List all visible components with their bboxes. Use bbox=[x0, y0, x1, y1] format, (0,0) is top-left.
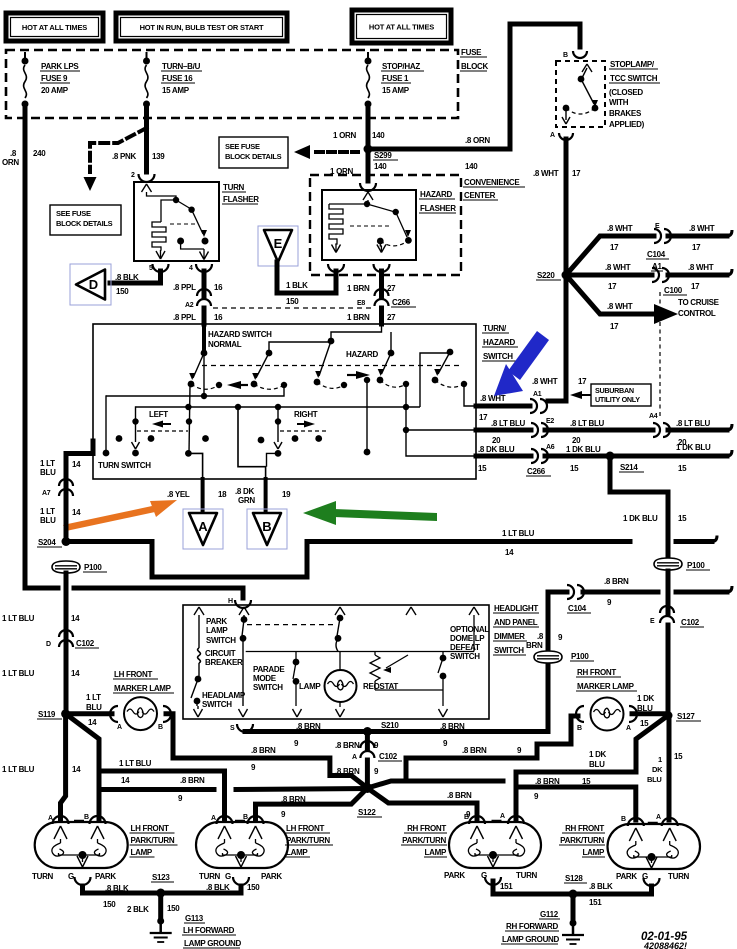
svg-text:BRAKES: BRAKES bbox=[609, 109, 642, 118]
svg-text:A6: A6 bbox=[546, 444, 555, 451]
svg-text:FUSE: FUSE bbox=[461, 48, 482, 57]
svg-text:151: 151 bbox=[500, 882, 513, 891]
svg-text:.8 LT BLU: .8 LT BLU bbox=[491, 419, 526, 428]
headlamp box entry arrows bbox=[194, 607, 199, 615]
wire .8 LT BLU 20 (switch to E2) bbox=[476, 428, 531, 433]
wire .8 WHT to C100-A1 (branch 2) bbox=[566, 273, 652, 278]
wire .8 BLK (lamp1 G to S123) bbox=[83, 886, 161, 893]
dashed arc 3 bbox=[317, 382, 344, 388]
fuse F16 TURN-B/U 15A bbox=[146, 52, 148, 61]
svg-text:1 DK BLU: 1 DK BLU bbox=[566, 445, 601, 454]
wire RH marker A to S127 bbox=[632, 711, 668, 716]
svg-text:CENTER: CENTER bbox=[464, 191, 496, 200]
svg-text:LAMP GROUND: LAMP GROUND bbox=[502, 935, 560, 944]
svg-text:1 LT: 1 LT bbox=[86, 693, 101, 702]
switch wire node-284 drop and crossbar bbox=[106, 385, 284, 396]
svg-text:LH FRONT: LH FRONT bbox=[114, 670, 152, 679]
svg-text:ORN: ORN bbox=[2, 158, 19, 167]
svg-text:AND PANEL: AND PANEL bbox=[494, 618, 538, 627]
svg-text:1 LT BLU: 1 LT BLU bbox=[2, 669, 35, 678]
grommet P100 (center riser) bbox=[534, 651, 562, 663]
wire 1 LT BLU 14 (A7 segment) bbox=[64, 487, 69, 541]
svg-text:150: 150 bbox=[116, 287, 129, 296]
svg-text:S122: S122 bbox=[358, 808, 376, 817]
svg-text:S220: S220 bbox=[537, 271, 555, 280]
svg-text:A2: A2 bbox=[185, 302, 194, 309]
svg-text:.8 WHT: .8 WHT bbox=[532, 377, 558, 386]
svg-text:15: 15 bbox=[640, 719, 649, 728]
svg-text:150: 150 bbox=[167, 904, 180, 913]
svg-text:15: 15 bbox=[478, 464, 487, 473]
svg-text:OPTIONAL: OPTIONAL bbox=[450, 625, 489, 634]
svg-text:.8 BRN: .8 BRN bbox=[180, 776, 205, 785]
svg-text:SWITCH: SWITCH bbox=[253, 683, 283, 692]
splice S128 bbox=[569, 890, 578, 899]
switch wire BRN entry rail bbox=[331, 324, 382, 341]
svg-text:14: 14 bbox=[88, 718, 97, 727]
svg-text:15 AMP: 15 AMP bbox=[162, 86, 190, 95]
wire .8 BLK (lamp4 G to S128) bbox=[573, 886, 652, 894]
svg-text:PARK/TURN: PARK/TURN bbox=[560, 836, 604, 845]
wire .8 PPL 16 (pin4 to A2) bbox=[202, 271, 207, 297]
svg-text:CIRCUIT: CIRCUIT bbox=[205, 649, 236, 658]
wire 1 BRN 27 (E8 to switch) bbox=[379, 308, 384, 324]
svg-text:C266: C266 bbox=[392, 298, 411, 307]
wire marker-B to BRN bus bbox=[166, 714, 367, 788]
svg-text:PARK: PARK bbox=[444, 871, 465, 880]
splice S119 bbox=[61, 709, 70, 718]
svg-text:B: B bbox=[563, 52, 568, 59]
switch right track bbox=[277, 407, 279, 421]
svg-text:STOP/HAZ: STOP/HAZ bbox=[382, 62, 420, 71]
hazard flasher box bbox=[322, 190, 416, 260]
svg-text:B: B bbox=[577, 725, 582, 732]
svg-text:A: A bbox=[48, 815, 53, 822]
RH marker lamp bbox=[591, 698, 624, 731]
switch wire node-406 drops bbox=[406, 384, 476, 456]
dashed line C266 between A2 and E8 bbox=[213, 307, 372, 309]
wire .8 LT BLU after A4 bbox=[668, 428, 727, 433]
wire .8 PPL 16 (A2 to switch) bbox=[202, 308, 207, 324]
svg-text:.8 BRN: .8 BRN bbox=[447, 791, 472, 800]
svg-text:PARK LPS: PARK LPS bbox=[41, 62, 79, 71]
power feed box HOT AT ALL TIMES (left) bbox=[6, 13, 103, 41]
wire .8 WHT after C104 bbox=[668, 234, 727, 239]
switch exit jog to LT BLU down-left bbox=[66, 441, 93, 487]
switch wire PPL entry to pivot1 bbox=[202, 324, 206, 353]
svg-text:A: A bbox=[500, 813, 505, 820]
svg-text:BLU: BLU bbox=[40, 516, 56, 525]
svg-text:.8 YEL: .8 YEL bbox=[167, 490, 190, 499]
symbol D to-sheet triangle bbox=[70, 264, 111, 305]
svg-text:G: G bbox=[642, 872, 648, 881]
svg-text:B: B bbox=[262, 519, 271, 534]
svg-text:SWITCH: SWITCH bbox=[450, 652, 480, 661]
svg-text:REOSTAT: REOSTAT bbox=[363, 682, 398, 691]
svg-text:TURN/: TURN/ bbox=[483, 324, 507, 333]
svg-text:1 LT BLU: 1 LT BLU bbox=[502, 529, 535, 538]
svg-text:C102: C102 bbox=[379, 752, 398, 761]
svg-text:LEFT: LEFT bbox=[149, 410, 168, 419]
svg-text:SWITCH: SWITCH bbox=[483, 352, 513, 361]
svg-text:150: 150 bbox=[103, 900, 116, 909]
svg-text:BLU: BLU bbox=[647, 775, 662, 784]
dashed connector boundary C100/A4 bbox=[659, 292, 661, 417]
svg-text:G: G bbox=[225, 872, 231, 881]
wire .8 BRN (S210 to C102-A) bbox=[365, 732, 370, 750]
svg-text:19: 19 bbox=[282, 490, 291, 499]
svg-text:15 AMP: 15 AMP bbox=[382, 86, 410, 95]
svg-text:17: 17 bbox=[692, 243, 701, 252]
fuse F1 STOP/HAZ 15A bbox=[367, 52, 369, 61]
wire stub .8 BRN right end bbox=[676, 590, 727, 595]
wire .8 BLK (lamp3 G to S128) bbox=[493, 881, 573, 894]
svg-text:.8 WHT: .8 WHT bbox=[605, 263, 631, 272]
svg-text:C104: C104 bbox=[647, 250, 666, 259]
switch contact dots row bbox=[116, 435, 123, 442]
svg-text:1 LT BLU: 1 LT BLU bbox=[2, 614, 35, 623]
dashed arc 4 bbox=[380, 380, 406, 387]
svg-text:P100: P100 bbox=[571, 652, 589, 661]
svg-text:.8 BRN: .8 BRN bbox=[535, 777, 560, 786]
RH marker cups bbox=[576, 706, 584, 722]
switch left track bbox=[135, 407, 137, 421]
svg-text:MARKER LAMP: MARKER LAMP bbox=[114, 684, 172, 693]
svg-text:14: 14 bbox=[121, 776, 130, 785]
svg-text:.8 BRN: .8 BRN bbox=[462, 746, 487, 755]
wire 1 DK BLU (S214 down to right col) bbox=[610, 456, 668, 555]
svg-text:1 DK BLU: 1 DK BLU bbox=[623, 514, 658, 523]
svg-text:14: 14 bbox=[72, 508, 81, 517]
connector cup pin 4 bbox=[196, 264, 212, 272]
svg-text:.8 BRN: .8 BRN bbox=[251, 746, 276, 755]
svg-text:.8 BLK: .8 BLK bbox=[105, 884, 129, 893]
wire .8 BRN (C102-A to S122) bbox=[365, 760, 370, 788]
svg-text:FUSE 16: FUSE 16 bbox=[162, 74, 193, 83]
headlamp switch box bbox=[183, 605, 489, 719]
connector cup hazard flasher pin BRN bbox=[374, 264, 390, 272]
reostat bbox=[374, 652, 376, 656]
suburban/utility callout bbox=[591, 384, 651, 406]
svg-text:A: A bbox=[198, 519, 208, 534]
turn flasher interior bbox=[142, 184, 147, 192]
svg-text:TURN: TURN bbox=[668, 872, 690, 881]
svg-text:BLU: BLU bbox=[86, 703, 102, 712]
svg-text:TO CRUISE: TO CRUISE bbox=[678, 298, 720, 307]
svg-text:HAZARD: HAZARD bbox=[420, 190, 452, 199]
wire 1 LT BLU (S204 down to S119) bbox=[64, 573, 69, 712]
svg-text:LAMP: LAMP bbox=[299, 682, 321, 691]
switch wire node-464 to WHT out bbox=[464, 384, 476, 406]
svg-text:NORMAL: NORMAL bbox=[208, 340, 242, 349]
svg-text:D: D bbox=[89, 277, 98, 292]
circuit breaker branch bbox=[198, 615, 200, 648]
switch wire node-367 bbox=[364, 377, 370, 383]
power feed box HOT IN RUN BULB TEST OR START bbox=[116, 13, 287, 41]
fuse F9 PARK LPS 20A bbox=[24, 52, 26, 61]
svg-text:.8 BLK: .8 BLK bbox=[589, 882, 613, 891]
switch rail y407 bbox=[136, 406, 421, 408]
svg-text:14: 14 bbox=[72, 460, 81, 469]
svg-text:BRN: BRN bbox=[526, 641, 543, 650]
svg-text:D: D bbox=[46, 641, 51, 648]
wire lamp1-B drop bbox=[97, 771, 102, 820]
switch node wire to B out bbox=[238, 407, 266, 479]
svg-text:.8 DK BLU: .8 DK BLU bbox=[478, 445, 515, 454]
LH front park/turn lamp 2 bbox=[196, 822, 288, 868]
symbol E to-sheet triangle bbox=[258, 226, 298, 266]
splice S123 bbox=[156, 889, 165, 898]
svg-text:FUSE 9: FUSE 9 bbox=[41, 74, 68, 83]
svg-text:FUSE 1: FUSE 1 bbox=[382, 74, 409, 83]
svg-text:1 LT: 1 LT bbox=[40, 459, 55, 468]
svg-text:A: A bbox=[626, 725, 631, 732]
wire .8 BRN bus y789 (lamp1B to S122) bbox=[99, 787, 214, 792]
switch node wire to A out bbox=[185, 450, 192, 457]
orange annotation arrow bbox=[63, 500, 177, 531]
svg-text:2: 2 bbox=[131, 172, 135, 179]
svg-text:.8 BLK: .8 BLK bbox=[206, 883, 230, 892]
svg-text:E: E bbox=[650, 618, 655, 625]
svg-text:1 BLK: 1 BLK bbox=[286, 281, 308, 290]
svg-text:1 DK: 1 DK bbox=[637, 694, 655, 703]
wire 1 DK BLU (S127 to lamp4 A) bbox=[667, 716, 672, 821]
wire S127 diag to lamp3A bbox=[636, 716, 668, 773]
svg-text:15: 15 bbox=[678, 464, 687, 473]
svg-text:.8 PPL: .8 PPL bbox=[173, 283, 196, 292]
dashed wire to see-fuse-details (right) bbox=[316, 150, 358, 154]
svg-text:1 LT BLU: 1 LT BLU bbox=[119, 759, 152, 768]
svg-text:.8 PPL: .8 PPL bbox=[173, 313, 196, 322]
svg-text:LAMP GROUND: LAMP GROUND bbox=[184, 939, 242, 948]
svg-text:20: 20 bbox=[492, 436, 501, 445]
svg-text:LH FRONT: LH FRONT bbox=[286, 824, 324, 833]
svg-text:.8 BRN: .8 BRN bbox=[296, 722, 321, 731]
svg-text:27: 27 bbox=[387, 313, 396, 322]
dashed arc 2 bbox=[254, 384, 284, 389]
svg-text:MODE: MODE bbox=[253, 674, 277, 683]
svg-text:S204: S204 bbox=[38, 538, 56, 547]
wire .8 BLK (lamp2 G to S123) bbox=[161, 886, 241, 893]
switch wire pivot1 drop bbox=[203, 353, 205, 396]
svg-text:C266: C266 bbox=[527, 467, 546, 476]
svg-text:APPLIED): APPLIED) bbox=[609, 120, 645, 129]
svg-text:17: 17 bbox=[578, 377, 587, 386]
stoplamp switch contacts bbox=[582, 64, 587, 72]
svg-text:CONVENIENCE: CONVENIENCE bbox=[464, 178, 520, 187]
svg-text:S299: S299 bbox=[374, 151, 392, 160]
svg-text:.8 WHT: .8 WHT bbox=[607, 224, 633, 233]
wire .8 DK BLU 15 (switch to A6) bbox=[476, 454, 531, 459]
svg-text:140: 140 bbox=[465, 162, 478, 171]
svg-text:17: 17 bbox=[479, 413, 488, 422]
svg-text:1 LT: 1 LT bbox=[40, 507, 55, 516]
svg-text:PARK/TURN: PARK/TURN bbox=[286, 836, 330, 845]
svg-text:.8: .8 bbox=[537, 632, 544, 641]
wire .8 WHT 17 (switch to A1) bbox=[476, 404, 530, 409]
svg-text:LH FORWARD: LH FORWARD bbox=[183, 926, 235, 935]
LH front park/turn lamp 1 bbox=[35, 822, 128, 868]
svg-text:240: 240 bbox=[33, 149, 46, 158]
svg-text:H: H bbox=[228, 598, 233, 605]
svg-text:LAMP: LAMP bbox=[286, 848, 308, 857]
svg-text:TCC SWITCH: TCC SWITCH bbox=[610, 74, 658, 83]
svg-text:.8 BRN: .8 BRN bbox=[281, 795, 306, 804]
wire .8 YEL 18 (to A) bbox=[201, 479, 205, 510]
svg-text:SEE FUSE: SEE FUSE bbox=[56, 209, 91, 218]
splice S204 bbox=[62, 537, 71, 546]
svg-text:.8 WHT: .8 WHT bbox=[533, 169, 559, 178]
svg-text:MARKER LAMP: MARKER LAMP bbox=[577, 682, 635, 691]
wire 1 LT BLU (S119 down to lamp1 A) bbox=[61, 714, 66, 820]
dome defeat switch branch (x443) bbox=[442, 652, 444, 657]
svg-text:.8 BRN: .8 BRN bbox=[335, 741, 360, 750]
wire 1 BRN 27 (flasher to E8) bbox=[379, 271, 384, 297]
switch main dashed track bbox=[202, 365, 460, 367]
LH marker cups bbox=[110, 706, 118, 722]
wire .8 BLK 150 (pin5 to D) bbox=[110, 271, 161, 283]
connector cup H bbox=[235, 600, 251, 608]
svg-text:HEADLIGHT: HEADLIGHT bbox=[494, 604, 538, 613]
svg-text:E: E bbox=[274, 236, 283, 251]
svg-text:G: G bbox=[68, 872, 74, 881]
splice S214 bbox=[606, 452, 615, 461]
svg-text:.8 ORN: .8 ORN bbox=[465, 136, 490, 145]
ground G113 bbox=[157, 918, 164, 925]
svg-text:UTILITY ONLY: UTILITY ONLY bbox=[595, 395, 640, 404]
svg-text:14: 14 bbox=[72, 765, 81, 774]
svg-text:S128: S128 bbox=[565, 874, 583, 883]
svg-text:S210: S210 bbox=[381, 721, 399, 730]
svg-text:.8 LT BLU: .8 LT BLU bbox=[570, 419, 605, 428]
svg-text:TURN: TURN bbox=[199, 872, 221, 881]
wire .8 BRN (C104 to right) bbox=[583, 590, 658, 595]
svg-text:PARK: PARK bbox=[616, 872, 637, 881]
svg-text:B: B bbox=[84, 814, 89, 821]
svg-text:150: 150 bbox=[286, 297, 299, 306]
svg-text:.8 PNK: .8 PNK bbox=[112, 152, 137, 161]
svg-text:P100: P100 bbox=[687, 561, 705, 570]
wire .8 BRN bus y806 (S122 to lamp2B) bbox=[256, 788, 368, 820]
svg-text:DK: DK bbox=[652, 765, 663, 774]
svg-text:1 DK: 1 DK bbox=[589, 750, 607, 759]
grommet P100 (left) bbox=[52, 561, 80, 573]
svg-text:LAMP: LAMP bbox=[425, 848, 447, 857]
svg-text:HAZARD SWITCH: HAZARD SWITCH bbox=[208, 330, 272, 339]
splice S299 bbox=[364, 145, 373, 154]
switch pivot 5 and blade bbox=[447, 349, 454, 356]
svg-text:15: 15 bbox=[674, 752, 683, 761]
svg-text:.8 BRN: .8 BRN bbox=[440, 722, 465, 731]
connector C104 (brn) bbox=[567, 585, 574, 599]
svg-text:TURN–B/U: TURN–B/U bbox=[162, 62, 201, 71]
svg-text:RH FRONT: RH FRONT bbox=[565, 824, 604, 833]
svg-text:B: B bbox=[464, 814, 469, 821]
svg-text:P100: P100 bbox=[84, 563, 102, 572]
svg-text:E2: E2 bbox=[546, 418, 554, 425]
callout box SEE FUSE BLOCK DETAILS (left) bbox=[50, 205, 121, 235]
svg-text:GRN: GRN bbox=[238, 496, 255, 505]
svg-text:140: 140 bbox=[374, 162, 387, 171]
wire riser to bus y758 and RH marker B bbox=[406, 716, 578, 781]
svg-text:TURN: TURN bbox=[223, 183, 245, 192]
svg-text:14: 14 bbox=[505, 548, 514, 557]
svg-text:1 BRN: 1 BRN bbox=[347, 313, 370, 322]
svg-text:FLASHER: FLASHER bbox=[420, 204, 456, 213]
svg-text:FLASHER: FLASHER bbox=[223, 195, 259, 204]
svg-text:1 BRN: 1 BRN bbox=[347, 284, 370, 293]
svg-text:139: 139 bbox=[152, 152, 165, 161]
svg-text:S214: S214 bbox=[620, 463, 638, 472]
svg-text:C102: C102 bbox=[76, 639, 95, 648]
svg-text:DOME LP: DOME LP bbox=[450, 634, 485, 643]
symbol A to-sheet triangle bbox=[183, 509, 223, 549]
wire .8 BRN S-bus (S to riser) bbox=[245, 592, 567, 732]
svg-text:C104: C104 bbox=[568, 604, 587, 613]
svg-text:A4: A4 bbox=[649, 413, 658, 420]
svg-text:A7: A7 bbox=[42, 490, 51, 497]
dashed branch to see-fuse-details arrow bbox=[90, 128, 147, 172]
svg-text:17: 17 bbox=[610, 322, 619, 331]
wire .8 BRN bus y786 (S122 to lamp4B) bbox=[367, 781, 503, 788]
svg-text:LAMP: LAMP bbox=[131, 848, 153, 857]
svg-text:LH FRONT: LH FRONT bbox=[131, 824, 169, 833]
switch pivot 4 and blade bbox=[388, 350, 395, 357]
wire 1 LT BLU 14 (row y771 to lamp2 A) bbox=[99, 771, 225, 820]
svg-text:1 LT BLU: 1 LT BLU bbox=[2, 765, 35, 774]
svg-text:HOT AT ALL TIMES: HOT AT ALL TIMES bbox=[369, 22, 434, 31]
svg-text:CONTROL: CONTROL bbox=[678, 309, 716, 318]
splice S220 bbox=[562, 271, 571, 280]
arrow left (normal) bbox=[227, 381, 241, 389]
svg-text:.8 WHT: .8 WHT bbox=[480, 394, 506, 403]
svg-text:17: 17 bbox=[691, 282, 700, 291]
wire 1 DK BLU (A6 to S214 to right) bbox=[545, 454, 727, 459]
svg-text:RH FRONT: RH FRONT bbox=[577, 668, 616, 677]
svg-text:PARADE: PARADE bbox=[253, 665, 285, 674]
wire 1 BLK 150 (E to hazard flasher) bbox=[277, 271, 336, 293]
switch wire pivot5 rail bbox=[420, 353, 450, 407]
switch pivot 1 and blade bbox=[201, 350, 208, 357]
turn flasher box bbox=[134, 182, 219, 261]
svg-text:BLU: BLU bbox=[589, 760, 605, 769]
switch wire x189 vertical bbox=[189, 386, 190, 453]
defeat feed (x474) bbox=[473, 615, 475, 652]
wire stub 1 LT BLU (right) bbox=[676, 539, 712, 544]
connector cup hazard flasher pin BLK bbox=[328, 264, 344, 272]
wire .8 ORN 140 (S299 to stoplamp switch B) bbox=[368, 24, 580, 149]
svg-text:SWITCH: SWITCH bbox=[202, 700, 232, 709]
splice S127 bbox=[664, 711, 673, 720]
splice S122 bbox=[362, 783, 372, 793]
wire .8 WHT 17 (stoplamp A to S220 to turn/hazard switch) bbox=[548, 139, 566, 401]
svg-text:STOPLAMP/: STOPLAMP/ bbox=[610, 60, 655, 69]
svg-text:PARK/TURN: PARK/TURN bbox=[402, 836, 446, 845]
svg-text:HAZARD: HAZARD bbox=[483, 338, 515, 347]
svg-text:HEADLAMP: HEADLAMP bbox=[202, 691, 246, 700]
hazard flasher interior bbox=[363, 192, 368, 200]
svg-text:C100: C100 bbox=[664, 286, 683, 295]
dome lamp symbol bbox=[339, 652, 341, 671]
svg-text:.8 BLK: .8 BLK bbox=[115, 273, 139, 282]
power feed box HOT AT ALL TIMES (right) bbox=[352, 10, 451, 43]
switch wire pivot2 stem bbox=[269, 342, 331, 353]
svg-text:LAMP: LAMP bbox=[583, 848, 605, 857]
turn/hazard switch box bbox=[93, 324, 476, 479]
svg-text:A1: A1 bbox=[533, 391, 542, 398]
callout box SEE FUSE BLOCK DETAILS (right) bbox=[219, 137, 288, 168]
svg-text:G112: G112 bbox=[540, 910, 559, 919]
